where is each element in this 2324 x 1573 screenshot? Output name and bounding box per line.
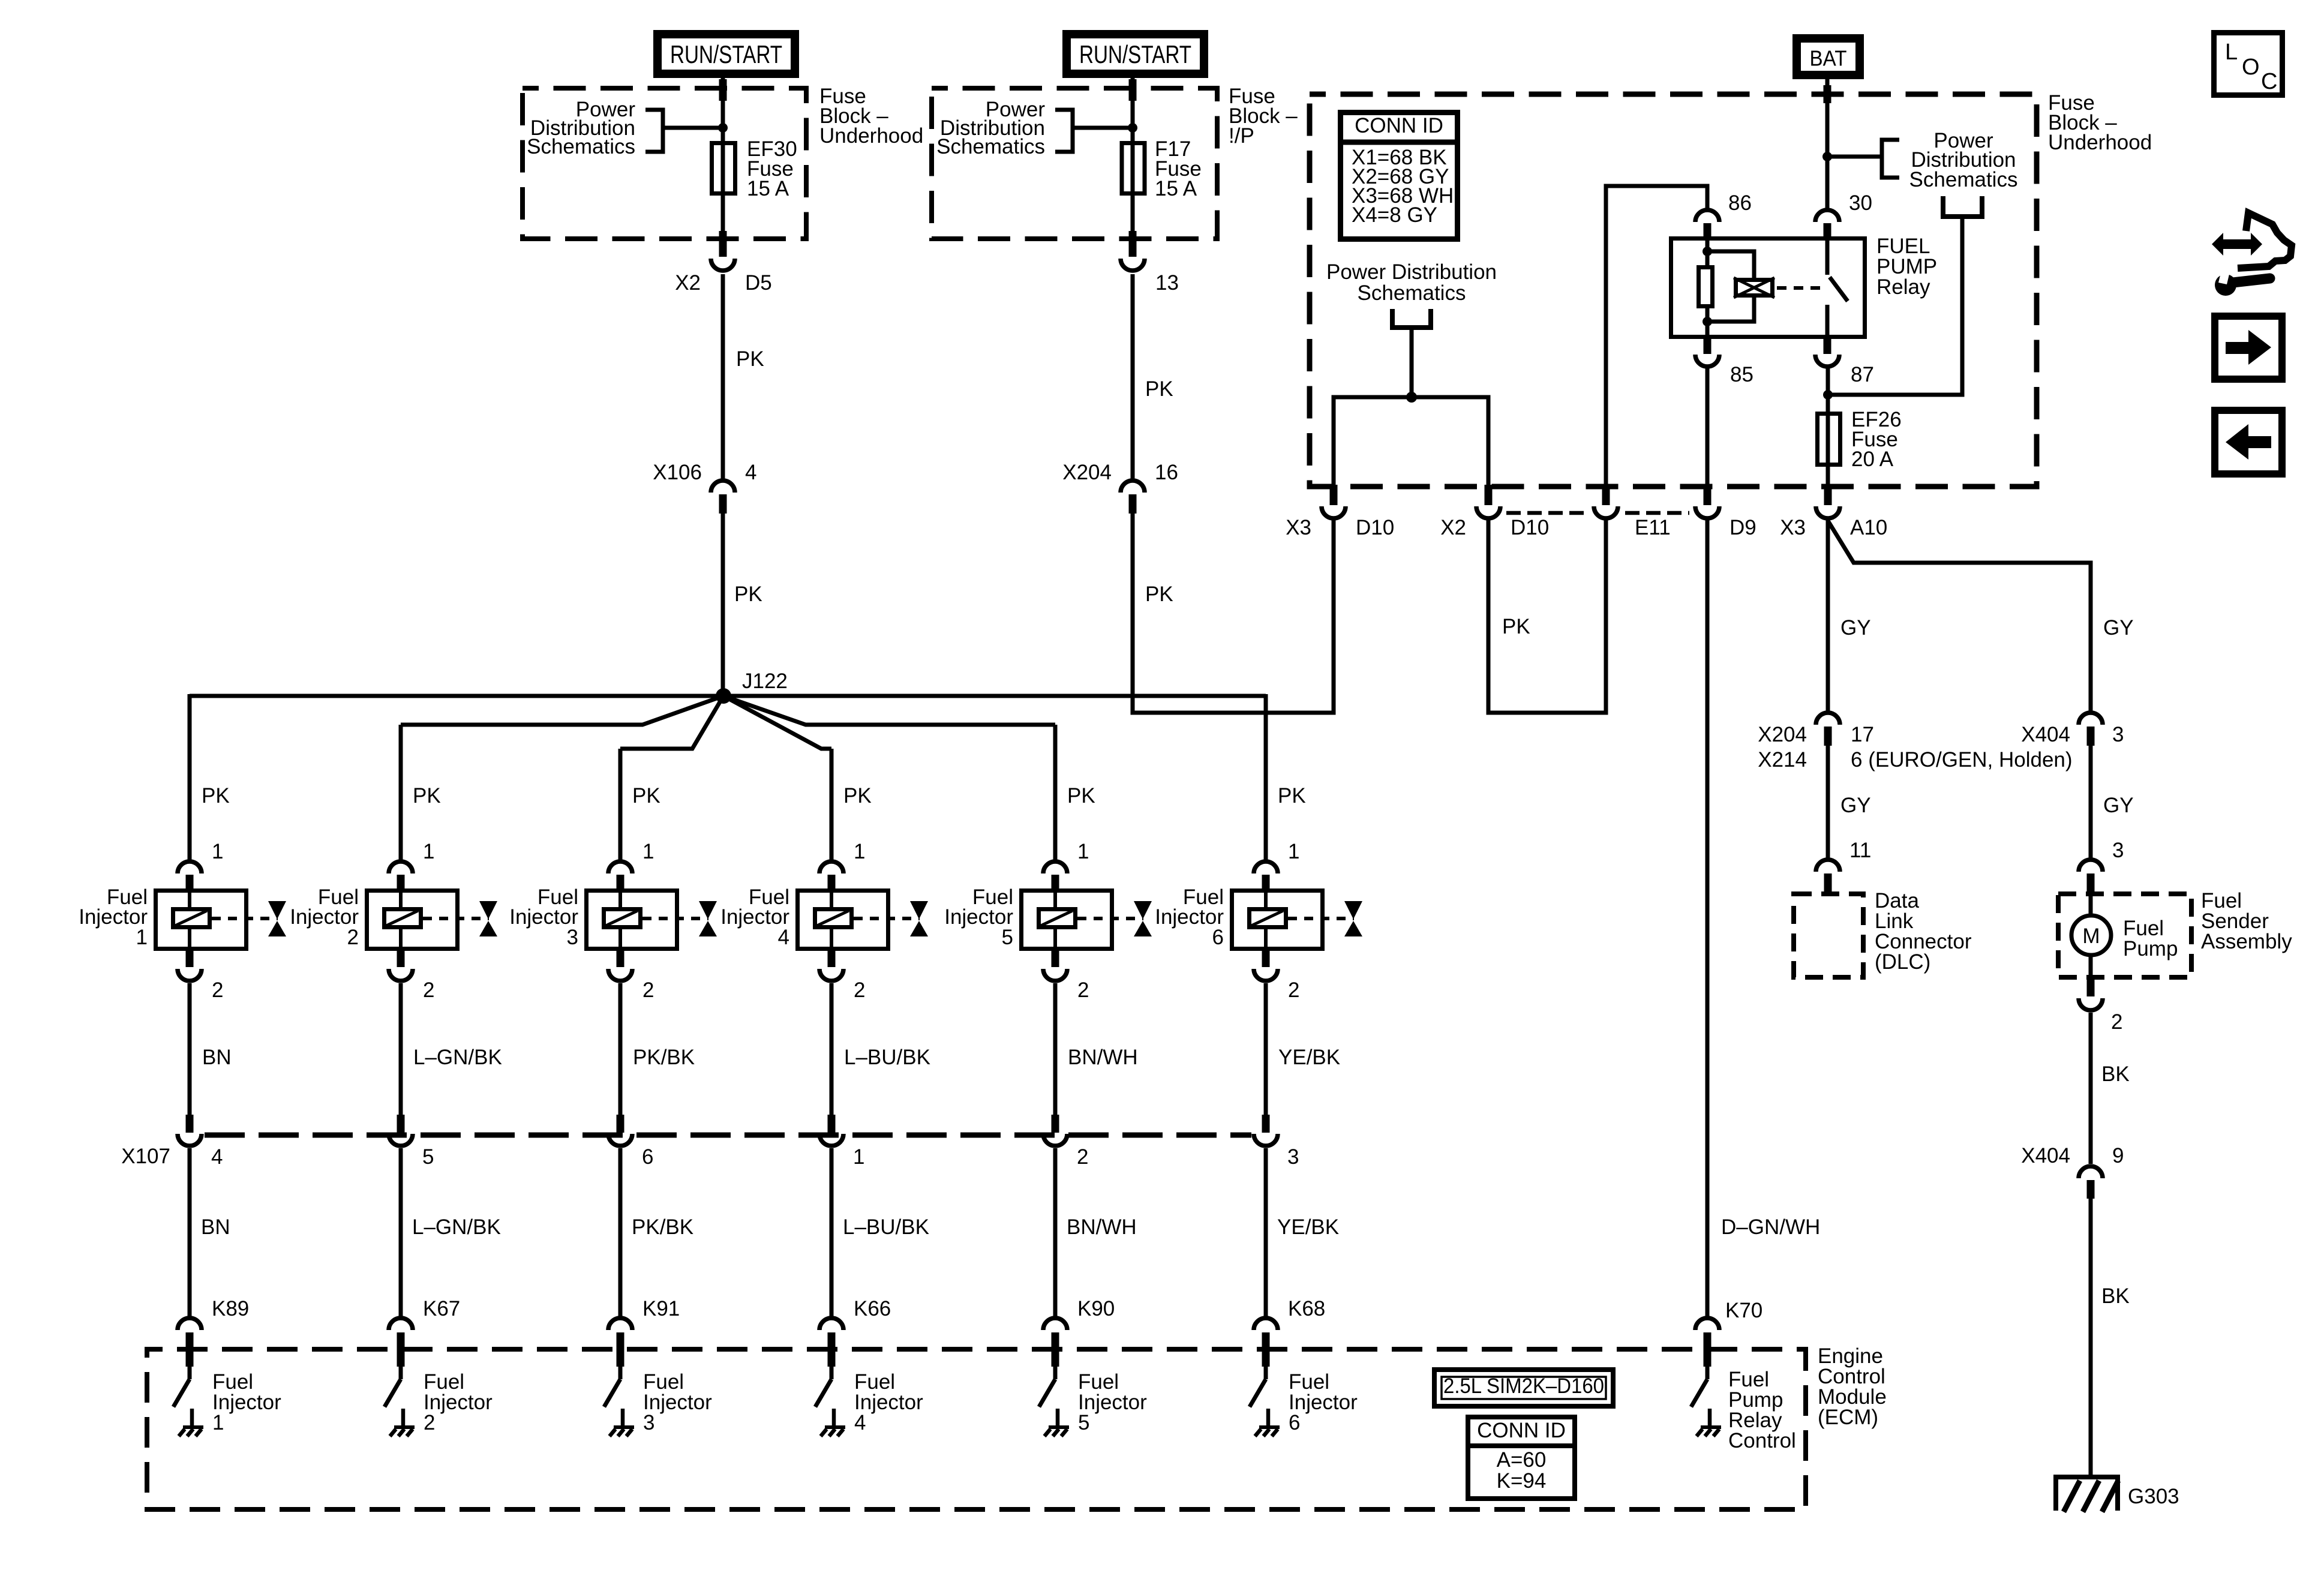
power feed tag RUN/START (fuse block I/P) xyxy=(1062,30,1208,78)
svg-text:L–BU/BK: L–BU/BK xyxy=(843,1215,929,1239)
wire BN X107 to ECM K89 xyxy=(188,1148,192,1316)
connector ECM pin K66 xyxy=(819,1318,843,1367)
connector injector 5 pin 1 xyxy=(1043,861,1067,890)
relay switch contact to pin 87 xyxy=(1825,305,1830,339)
wire pin 85 to D9 xyxy=(1706,368,1710,486)
fuel injector 6 coil xyxy=(1250,888,1286,951)
svg-text:K66: K66 xyxy=(854,1297,891,1320)
label Fuel Injector 2 (ECM) xyxy=(424,1370,493,1434)
fuel injector 3 valve dashes xyxy=(642,917,708,920)
label Fuel Injector 4 xyxy=(720,885,789,949)
fuel injector 5 valve dashes xyxy=(1077,917,1143,920)
svg-text:Underhood: Underhood xyxy=(819,124,923,148)
yoke to power distribution schematics (right) xyxy=(1943,196,1982,217)
bracket to Power Distribution Schematics (block 1) xyxy=(645,110,723,152)
svg-text:O: O xyxy=(2242,55,2260,80)
svg-text:PK: PK xyxy=(734,583,762,606)
label Fuel Injector 2 xyxy=(290,885,359,949)
fuel injector 2 box xyxy=(367,891,458,949)
fuel injector 3 box xyxy=(587,891,677,949)
connector injector 5 pin 2 xyxy=(1043,951,1067,981)
connector body dashes E11-D9 xyxy=(1625,511,1689,515)
connector injector 3 pin 1 xyxy=(608,861,632,890)
label Fuel Injector 5 (ECM) xyxy=(1078,1370,1147,1434)
ECM fuel injector 6 driver switch xyxy=(1250,1365,1280,1436)
connector X204 pin 17 / X214 pin 6 xyxy=(1816,713,1840,746)
label Engine Control Module (ECM) xyxy=(1818,1344,1887,1429)
svg-text:X2: X2 xyxy=(1440,516,1466,539)
relay pin 86 connector xyxy=(1695,210,1719,238)
wire D-GN/WH D9 to ECM K70 xyxy=(1706,520,1710,1316)
svg-text:2: 2 xyxy=(1288,978,1299,1002)
wire PK branch to injector 3 xyxy=(618,749,623,860)
CONN ID table (underhood connectors) xyxy=(1338,113,1460,239)
svg-text:K68: K68 xyxy=(1288,1297,1325,1320)
label Power Distribution Schematics (BAT side) xyxy=(1909,129,2018,191)
connector X107 body dashes xyxy=(205,1133,1251,1138)
svg-text:PK: PK xyxy=(1067,784,1095,807)
splice J122 xyxy=(716,688,731,704)
svg-text:GY: GY xyxy=(2103,616,2134,640)
relay pin 87 connector xyxy=(1815,339,1839,367)
svg-text:PK: PK xyxy=(202,784,230,807)
ECM fuel injector 5 driver switch xyxy=(1039,1365,1069,1436)
icon arrow previous page xyxy=(2215,410,2282,474)
svg-text:4: 4 xyxy=(854,1411,866,1434)
bracket to Power Distribution Schematics (block 2) xyxy=(1055,110,1133,152)
svg-text:3: 3 xyxy=(2112,723,2124,746)
svg-text:1: 1 xyxy=(423,840,434,863)
power feed tag BAT xyxy=(1792,34,1864,79)
wire branch injector 2/5 rail xyxy=(401,696,723,725)
svg-text:PK/BK: PK/BK xyxy=(633,1046,695,1069)
fuse F17 15 A xyxy=(1122,143,1145,194)
label Data Link Connector (DLC) xyxy=(1875,889,1972,974)
svg-text:1: 1 xyxy=(212,1411,224,1434)
label EF26 Fuse 20 A xyxy=(1851,408,1902,471)
wire PK branch to injector 6 xyxy=(1264,694,1268,860)
label 2.5L SIM2K-D160 box xyxy=(1434,1370,1613,1406)
fuel injector 5 valve (nozzle) xyxy=(1134,901,1152,936)
svg-text:3: 3 xyxy=(643,1411,654,1434)
connector injector 4 pin 1 xyxy=(819,861,843,890)
svg-text:RUN/START: RUN/START xyxy=(1079,40,1191,68)
relay coil bottom wire xyxy=(1707,298,1754,322)
connector D9 xyxy=(1695,485,1719,518)
connector pin 13 xyxy=(1121,231,1145,271)
connector X3 pin D10 xyxy=(1322,485,1346,518)
ECM fuel injector 3 driver switch xyxy=(604,1365,634,1436)
svg-text:Underhood: Underhood xyxy=(2048,131,2152,154)
bracket to Power Distribution Schematics (BAT) xyxy=(1827,140,1899,178)
svg-text:K90: K90 xyxy=(1077,1297,1115,1320)
wire PK X2-D10 to E11 xyxy=(1488,520,1606,713)
connector X107 pin 5 xyxy=(389,1115,413,1146)
icon wrench and connector (service info) xyxy=(2212,213,2292,296)
svg-text:X214: X214 xyxy=(1758,748,1807,772)
connector ECM pin K70 xyxy=(1695,1318,1719,1367)
svg-text:PK: PK xyxy=(1145,377,1173,401)
svg-text:PK: PK xyxy=(843,784,872,807)
svg-text:D5: D5 xyxy=(745,271,772,295)
junction dot on EF30 feed xyxy=(718,123,728,133)
label Fuse Block - Underhood xyxy=(819,85,923,148)
svg-text:D10: D10 xyxy=(1356,516,1394,539)
wire A10 to fuel sender branch xyxy=(1828,521,2091,712)
wire BN injector 1 to X107 xyxy=(188,983,192,1115)
connector DLC pin 11 xyxy=(1816,860,1840,894)
wire branch rail to injector 5 xyxy=(723,696,1055,725)
svg-text:PK/BK: PK/BK xyxy=(632,1215,693,1239)
relay pin 30 connector xyxy=(1815,210,1839,238)
svg-text:X2: X2 xyxy=(675,271,701,295)
svg-text:PK: PK xyxy=(1278,784,1306,807)
svg-text:A=60: A=60 xyxy=(1497,1448,1547,1472)
power feed tag RUN/START (fuse block underhood) xyxy=(653,30,799,78)
wire YE/BK injector 6 to X107 xyxy=(1264,983,1268,1115)
connector X107 pin 1 xyxy=(819,1115,843,1146)
wire yoke to fuel pump feed junction xyxy=(1828,217,1962,395)
svg-text:K89: K89 xyxy=(212,1297,249,1320)
fuel injector 4 valve (nozzle) xyxy=(910,901,928,936)
wire BN/WH injector 5 to X107 xyxy=(1053,983,1058,1115)
svg-text:1: 1 xyxy=(854,840,865,863)
svg-text:X4=8 GY: X4=8 GY xyxy=(1352,203,1437,227)
svg-text:X3: X3 xyxy=(1780,516,1806,539)
svg-text:A10: A10 xyxy=(1850,516,1887,539)
svg-text:2: 2 xyxy=(212,978,223,1002)
svg-text:13: 13 xyxy=(1155,271,1179,295)
svg-text:2: 2 xyxy=(347,926,359,949)
connector ECM pin K89 xyxy=(178,1318,202,1367)
label FUEL PUMP Relay xyxy=(1876,235,1937,299)
connector ECM pin K67 xyxy=(389,1318,413,1367)
fuel injector 1 valve dashes xyxy=(212,917,278,920)
svg-text:D9: D9 xyxy=(1730,516,1756,539)
svg-text:30: 30 xyxy=(1849,191,1872,215)
fuel pump relay box xyxy=(1671,239,1865,337)
fuel injector 1 box xyxy=(156,891,247,949)
svg-text:D–GN/WH: D–GN/WH xyxy=(1721,1215,1820,1239)
wire pin 87 to EF26 xyxy=(1826,368,1830,486)
connector ECM pin K68 xyxy=(1254,1318,1278,1367)
label Fuel Pump xyxy=(2123,917,2178,960)
label Fuse Block - Underhood (right) xyxy=(2048,91,2152,154)
label Fuel Injector 1 xyxy=(79,885,148,949)
svg-text:1: 1 xyxy=(853,1145,864,1169)
fuel injector 2 coil xyxy=(385,888,421,951)
fuel injector 1 coil xyxy=(173,888,210,951)
wire E11 to relay pin 86 xyxy=(1606,186,1707,486)
connector X404 pin 3 xyxy=(2079,713,2103,746)
label EF30 Fuse 15 A xyxy=(747,137,797,200)
svg-text:1: 1 xyxy=(136,926,148,949)
connector X107 pin 4 xyxy=(178,1115,202,1146)
wire EF30 to connector X2-D5 xyxy=(721,196,725,239)
svg-text:4: 4 xyxy=(778,926,789,949)
svg-text:YE/BK: YE/BK xyxy=(1277,1215,1339,1239)
svg-text:K91: K91 xyxy=(642,1297,680,1320)
fuel injector 6 box xyxy=(1232,891,1323,949)
svg-text:87: 87 xyxy=(1851,363,1874,386)
svg-text:L–GN/BK: L–GN/BK xyxy=(413,1046,502,1069)
svg-text:D10: D10 xyxy=(1511,516,1549,539)
CONN ID table (ECM) xyxy=(1468,1417,1575,1499)
svg-text:X204: X204 xyxy=(1062,461,1112,484)
relay pin 85 connector xyxy=(1695,339,1719,367)
svg-text:15 A: 15 A xyxy=(747,177,789,200)
svg-text:(DLC): (DLC) xyxy=(1875,950,1930,974)
connector injector 4 pin 2 xyxy=(819,951,843,981)
fuse block - underhood dashed box xyxy=(523,88,806,239)
svg-text:3: 3 xyxy=(567,926,578,949)
ECM fuel injector 1 driver switch xyxy=(173,1365,203,1436)
wire A10 to DLC branch xyxy=(1826,518,1830,712)
connector ECM pin K91 xyxy=(608,1318,632,1367)
svg-text:GY: GY xyxy=(2103,794,2134,817)
svg-text:!/P: !/P xyxy=(1229,124,1254,148)
connector X2 pin D10 xyxy=(1476,485,1500,518)
svg-text:4: 4 xyxy=(745,461,756,484)
connector X107 pin 3 xyxy=(1254,1115,1278,1146)
connector X106 pin 4 xyxy=(711,481,735,514)
wire PK/BK injector 3 to X107 xyxy=(618,983,623,1115)
svg-text:3: 3 xyxy=(1287,1145,1299,1169)
fuel injector 4 valve dashes xyxy=(854,917,920,920)
svg-text:YE/BK: YE/BK xyxy=(1278,1046,1340,1069)
svg-text:L–GN/BK: L–GN/BK xyxy=(412,1215,501,1239)
svg-text:9: 9 xyxy=(2112,1144,2124,1167)
svg-text:RUN/START: RUN/START xyxy=(670,40,782,68)
fuel injector 5 coil xyxy=(1039,888,1076,951)
wire RUN/START to fuse F17 xyxy=(1131,78,1135,239)
connector X204 pin 16 xyxy=(1121,481,1145,514)
fuel injector 6 valve dashes xyxy=(1288,917,1354,920)
svg-text:PK: PK xyxy=(413,784,441,807)
svg-text:2: 2 xyxy=(2111,1010,2122,1034)
wire branch injector 4 rail xyxy=(723,696,831,749)
wire PK X106 to J122 xyxy=(721,514,725,696)
svg-text:2: 2 xyxy=(423,978,434,1002)
svg-text:CONN ID: CONN ID xyxy=(1477,1419,1566,1442)
junction dot on F17 feed xyxy=(1128,123,1137,133)
label Power Distribution Schematics (block 1) xyxy=(527,98,635,158)
wire RUN/START to fuse EF30 xyxy=(721,78,725,239)
wire BK pump to X404-9 xyxy=(2089,1013,2093,1164)
wire PK X204-16 to X3-D10 xyxy=(1133,514,1334,713)
connector ECM pin K90 xyxy=(1043,1318,1067,1367)
svg-text:X107: X107 xyxy=(121,1145,170,1168)
wire BAT to relay pin 30 xyxy=(1825,79,1830,209)
wire L&#8211;GN/BK X107 to ECM K67 xyxy=(399,1148,403,1316)
svg-text:1: 1 xyxy=(1077,840,1089,863)
wire BK X404-9 to G303 xyxy=(2089,1199,2093,1477)
svg-text:1: 1 xyxy=(1288,840,1299,863)
stub crossing box top (node D5 feed) xyxy=(719,79,727,101)
label Fuel Injector 4 (ECM) xyxy=(854,1370,923,1434)
relay switch contact from pin 30 xyxy=(1825,238,1830,275)
svg-text:PK: PK xyxy=(1145,583,1173,606)
svg-text:2: 2 xyxy=(1077,1145,1088,1169)
connector X107 pin 6 xyxy=(608,1115,632,1146)
label Fuel Injector 3 (ECM) xyxy=(643,1370,712,1434)
wire GY X204-17 to DLC xyxy=(1826,746,1830,858)
svg-text:6: 6 xyxy=(1212,926,1224,949)
svg-text:4: 4 xyxy=(211,1145,223,1169)
label Fuse Block - !/P xyxy=(1229,85,1298,148)
svg-text:6 (EURO/GEN, Holden): 6 (EURO/GEN, Holden) xyxy=(1851,748,2073,772)
fuel injector 5 box xyxy=(1022,891,1112,949)
svg-text:2.5L SIM2K–D160: 2.5L SIM2K–D160 xyxy=(1443,1374,1604,1398)
wire PK 13 to X204 xyxy=(1131,274,1135,479)
fuse block - I/P dashed box xyxy=(932,88,1217,239)
svg-text:PK: PK xyxy=(1502,615,1530,638)
engine control module dashed box xyxy=(147,1349,1806,1509)
connector body dashes X2D10-E11 xyxy=(1506,511,1588,515)
svg-text:L: L xyxy=(2225,40,2238,65)
svg-text:6: 6 xyxy=(1289,1411,1300,1434)
svg-text:Schematics: Schematics xyxy=(1358,281,1466,305)
fuel injector 2 valve (nozzle) xyxy=(479,901,497,936)
label Power Distribution Schematics (block 2) xyxy=(936,98,1045,158)
junction dot coil top xyxy=(1703,247,1712,256)
connector injector 2 pin 2 xyxy=(389,951,413,981)
wire BN/WH X107 to ECM K90 xyxy=(1053,1148,1058,1316)
fuel injector 1 valve (nozzle) xyxy=(268,901,286,936)
wire PK branch to injector 4 xyxy=(830,749,834,860)
label Power Distribution Schematics (middle) xyxy=(1326,260,1497,305)
relay coil branch wire xyxy=(1707,238,1754,278)
svg-text:M: M xyxy=(2082,924,2100,948)
wire GY X404-3 to fuel pump xyxy=(2089,746,2093,858)
ground G303 xyxy=(2053,1477,2120,1512)
svg-text:5: 5 xyxy=(1002,926,1013,949)
wire pump pin 3 to motor xyxy=(2089,894,2093,916)
relay actuator dashed link xyxy=(1777,286,1824,290)
wire L&#8211;BU/BK injector 4 to X107 xyxy=(830,983,834,1115)
wire PK branch to injector 2 xyxy=(399,725,403,860)
label Fuel Injector 3 xyxy=(509,885,578,949)
svg-text:2: 2 xyxy=(1077,978,1089,1002)
ECM fuel injector 4 driver switch xyxy=(815,1365,845,1436)
fuel sender assembly dashed box xyxy=(2058,894,2191,977)
ECM fuel injector 2 driver switch xyxy=(385,1365,415,1436)
wire PK/BK X107 to ECM K91 xyxy=(618,1148,623,1316)
fuel injector 2 valve dashes xyxy=(423,917,489,920)
junction dot BAT distribution xyxy=(1822,152,1832,161)
svg-text:86: 86 xyxy=(1728,191,1752,215)
fuse EF30 15 A xyxy=(712,143,735,194)
wire PK branch to injector 5 xyxy=(1053,725,1058,860)
svg-text:11: 11 xyxy=(1849,839,1871,862)
svg-text:G303: G303 xyxy=(2128,1485,2179,1508)
svg-text:E11: E11 xyxy=(1635,516,1671,539)
wire motor to pump pin 2 xyxy=(2089,955,2093,980)
svg-text:Schematics: Schematics xyxy=(936,135,1045,158)
connector injector 3 pin 2 xyxy=(608,951,632,981)
svg-text:5: 5 xyxy=(1078,1411,1089,1434)
junction dot D10 rail xyxy=(1406,392,1417,403)
wire L&#8211;GN/BK injector 2 to X107 xyxy=(399,983,403,1115)
svg-text:X404: X404 xyxy=(2021,723,2070,746)
fuel injector 4 coil xyxy=(815,888,852,951)
junction dot pin 87 feed xyxy=(1823,390,1833,400)
svg-text:BN: BN xyxy=(201,1215,230,1239)
svg-text:2: 2 xyxy=(424,1411,435,1434)
wire branch injector 3 rail xyxy=(620,696,723,749)
fuse EF26 20 A xyxy=(1818,414,1840,465)
connector X3 pin A10 xyxy=(1816,485,1840,518)
wire PK branch to injector 1 xyxy=(188,694,192,860)
stub crossing big box top (BAT wire) xyxy=(1824,85,1831,103)
relay resistor xyxy=(1699,251,1713,322)
svg-text:6: 6 xyxy=(642,1145,653,1169)
svg-text:1: 1 xyxy=(642,840,654,863)
connector X404 pin 9 xyxy=(2079,1166,2103,1199)
label Fuel Pump Relay Control xyxy=(1728,1368,1796,1452)
ECM fuel pump relay control switch xyxy=(1691,1365,1721,1436)
svg-text:2: 2 xyxy=(854,978,865,1002)
connector injector 1 pin 2 xyxy=(178,951,202,981)
svg-text:2: 2 xyxy=(642,978,654,1002)
connector X2 pin D5 xyxy=(711,231,735,271)
svg-text:K=94: K=94 xyxy=(1497,1469,1547,1493)
svg-text:Relay: Relay xyxy=(1876,275,1930,299)
data link connector dashed box xyxy=(1794,894,1863,977)
svg-text:(ECM): (ECM) xyxy=(1818,1406,1878,1429)
svg-text:K67: K67 xyxy=(423,1297,460,1320)
fuel injector 3 valve (nozzle) xyxy=(699,901,717,936)
svg-text:Power Distribution: Power Distribution xyxy=(1326,260,1497,284)
wire yoke to D10 rail xyxy=(1410,328,1414,397)
svg-text:Pump: Pump xyxy=(2123,937,2178,960)
svg-text:Schematics: Schematics xyxy=(527,135,635,158)
svg-text:Assembly: Assembly xyxy=(2201,930,2292,953)
svg-text:BK: BK xyxy=(2101,1062,2130,1086)
wire F17 to connector 13 xyxy=(1131,196,1135,239)
stub crossing box2 top xyxy=(1129,79,1137,101)
icon LOC box xyxy=(2214,33,2283,95)
svg-text:X106: X106 xyxy=(653,461,702,484)
wire L&#8211;BU/BK X107 to ECM K66 xyxy=(830,1148,834,1316)
label Fuel Injector 5 xyxy=(944,885,1013,949)
svg-text:20 A: 20 A xyxy=(1851,448,1894,471)
wire YE/BK X107 to ECM K68 xyxy=(1264,1148,1268,1316)
svg-text:PK: PK xyxy=(632,784,660,807)
svg-text:Control: Control xyxy=(1728,1429,1796,1452)
svg-text:Schematics: Schematics xyxy=(1909,168,2018,191)
wire J122 main rail xyxy=(190,694,1266,698)
svg-text:15 A: 15 A xyxy=(1155,177,1197,200)
svg-text:3: 3 xyxy=(2112,839,2124,862)
fuel pump motor M xyxy=(2071,915,2111,955)
svg-text:5: 5 xyxy=(422,1145,434,1169)
relay coil (box with X) xyxy=(1734,278,1774,298)
connector injector 6 pin 1 xyxy=(1254,861,1278,890)
svg-text:BN/WH: BN/WH xyxy=(1068,1046,1138,1069)
label F17 Fuse 15 A xyxy=(1155,137,1202,200)
svg-text:BN/WH: BN/WH xyxy=(1067,1215,1137,1239)
relay switch blade xyxy=(1830,277,1848,301)
connector E11 xyxy=(1594,485,1618,518)
connector fuel pump pin 2 xyxy=(2079,980,2103,1010)
svg-text:X404: X404 xyxy=(2021,1144,2070,1167)
svg-text:17: 17 xyxy=(1851,723,1874,746)
label Fuel Injector 6 xyxy=(1155,885,1224,949)
junction dot coil bottom xyxy=(1703,317,1712,326)
connector X107 pin 2 xyxy=(1043,1115,1067,1146)
svg-text:X204: X204 xyxy=(1758,723,1807,746)
